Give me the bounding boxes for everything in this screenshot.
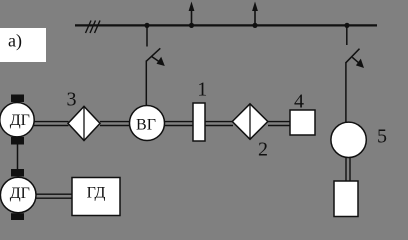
shaft motor 5 to load (346, 157, 350, 181)
svg-text:2: 2 (258, 139, 268, 161)
coupling pad top of ДГ1 (11, 95, 24, 103)
svg-text:4: 4 (294, 90, 304, 112)
svg-text:ВГ: ВГ (136, 117, 156, 134)
node B (189, 23, 194, 28)
feeder arrow 1 (189, 2, 195, 26)
svg-text:3: 3 (67, 89, 77, 111)
bus N1 (75, 24, 377, 26)
clutch 2 (diamond) (232, 104, 267, 140)
breaker QF1 (146, 25, 160, 62)
svg-text:ГД: ГД (87, 185, 106, 202)
figure label box (0, 28, 46, 62)
wire QF2 to motor 5 (345, 62, 347, 123)
svg-text:ДГ: ДГ (10, 185, 30, 202)
breaker QF2 (346, 25, 360, 63)
node D (344, 23, 349, 28)
wire between ДГ1 and ДГ2 (17, 144, 19, 170)
shaft gearbox 1 to clutch 2 (205, 122, 233, 126)
svg-text:1: 1 (197, 79, 207, 101)
load below motor 5 (334, 181, 358, 217)
coupling pad bottom of ДГ1 (11, 137, 24, 145)
shaft clutch 3 to ВГ (100, 122, 130, 126)
coupling pad top of ДГ2 (11, 169, 24, 177)
motor 5 (331, 122, 366, 157)
generator ДГ2 (0, 177, 36, 213)
svg-text:5: 5 (377, 126, 387, 148)
shaft generator ВГ (130, 106, 165, 141)
clutch 3 (diamond) (68, 106, 100, 140)
shaft ДГ2 to ГД (36, 194, 72, 198)
three-phase mark (86, 21, 101, 34)
node A (144, 23, 149, 28)
shaft ВГ to gearbox 1 (165, 122, 194, 126)
svg-text:ДГ: ДГ (10, 112, 30, 129)
feeder arrow 2 (252, 2, 258, 26)
wire QF1 to ВГ (145, 61, 147, 107)
svg-text:а): а) (8, 30, 22, 51)
gearbox 1 (193, 103, 205, 141)
shaft clutch 2 to mechanism 4 (268, 122, 290, 126)
mechanism 4 (290, 110, 315, 135)
generator ДГ1 (0, 103, 34, 137)
shaft ДГ1 to clutch 3 (34, 122, 69, 126)
node C (252, 23, 257, 28)
coupling pad bottom of ДГ2 (11, 213, 24, 220)
engine ГД (72, 178, 120, 216)
